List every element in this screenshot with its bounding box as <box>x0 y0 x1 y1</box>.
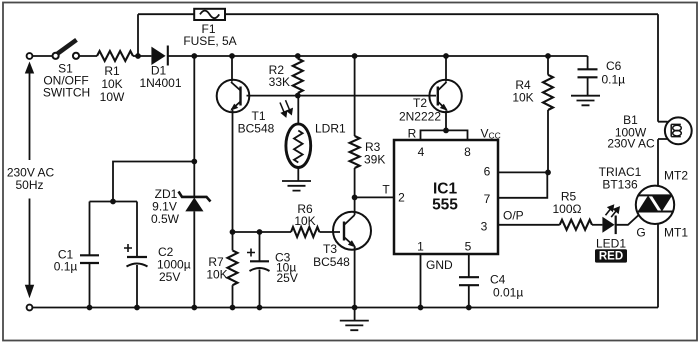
svg-text:0.1µ: 0.1µ <box>54 260 78 274</box>
resistor R3 <box>350 56 386 197</box>
wire terminal to S1 <box>33 55 53 57</box>
wire main rail D1 cathode to C6 drop <box>168 55 588 57</box>
wire C1-C2 top link <box>90 201 138 203</box>
wire pin 7 up to pin 6 junction <box>498 172 547 197</box>
label RED badge <box>595 249 627 263</box>
resistor R6 <box>291 202 319 237</box>
svg-text:R: R <box>408 127 417 141</box>
node L: AC live input terminal <box>27 53 33 59</box>
svg-text:10W: 10W <box>100 90 125 104</box>
node: junction on ZD1 line <box>191 159 197 165</box>
svg-text:GND: GND <box>426 258 453 272</box>
svg-text:100Ω: 100Ω <box>553 202 582 216</box>
light arrows into LDR <box>280 100 292 116</box>
wire T1 emitter down to R7 top <box>232 110 234 232</box>
svg-text:LED1: LED1 <box>596 236 626 250</box>
wire LED to triac gate <box>616 212 643 225</box>
resistor R7 <box>206 232 237 308</box>
svg-text:4: 4 <box>418 145 425 159</box>
LED emission arrows <box>606 206 620 218</box>
svg-text:1: 1 <box>417 240 424 254</box>
wire T2 collector to rail <box>445 56 447 82</box>
wire T3 emitter down to rail <box>354 247 356 308</box>
resistor R1 <box>97 51 133 104</box>
svg-text:25V: 25V <box>159 270 180 284</box>
svg-text:25V: 25V <box>277 271 298 285</box>
wire bottom rail <box>33 307 658 309</box>
switch S1 <box>43 40 90 100</box>
LDR1 <box>286 96 346 181</box>
svg-text:BC548: BC548 <box>313 255 350 269</box>
capacitor C1 <box>54 202 99 308</box>
node: C3 top junction <box>257 229 263 235</box>
node: R2 bottom / base junction <box>295 93 301 99</box>
svg-text:10K: 10K <box>512 91 533 105</box>
capacitor C2 (electrolytic) <box>124 202 191 308</box>
transistor T3 BC548 <box>313 212 371 269</box>
wire T2 emitter to pin4/8 bracket <box>445 111 447 131</box>
svg-text:RED: RED <box>599 251 623 263</box>
svg-text:C6: C6 <box>606 59 622 73</box>
wire T1 collector to rail <box>231 56 233 82</box>
wire base line to T2 <box>298 95 436 97</box>
svg-text:T3: T3 <box>323 242 337 256</box>
wire junction line to R6 <box>233 231 292 233</box>
svg-text:555: 555 <box>432 197 458 214</box>
wire right side drop to bulb <box>657 14 659 122</box>
zener diode ZD1 <box>151 56 211 308</box>
svg-text:2: 2 <box>398 191 405 205</box>
svg-text:T2: T2 <box>413 96 427 110</box>
capacitor C6 <box>578 56 626 96</box>
svg-text:1N4001: 1N4001 <box>139 76 181 90</box>
node: R4 top junction <box>545 53 551 59</box>
wire riser from C1/C2 link to ZD1 line <box>113 162 194 202</box>
svg-text:33K: 33K <box>269 75 290 89</box>
svg-text:0.5W: 0.5W <box>151 212 180 226</box>
wire MT2 riser <box>657 139 659 186</box>
node: ZD1 branch junction <box>191 53 197 59</box>
node T: trigger junction <box>352 195 358 201</box>
wire top rail left of fuse <box>138 13 194 15</box>
node: pin6/7/R4 junction <box>545 170 551 176</box>
transistor T1 BC548 <box>217 80 275 136</box>
svg-text:R1: R1 <box>104 64 120 78</box>
diode D1 1N4001 <box>139 46 181 91</box>
svg-text:0.1µ: 0.1µ <box>602 73 626 87</box>
svg-text:T: T <box>382 183 390 197</box>
svg-text:10K: 10K <box>101 77 122 91</box>
wire junction up to top rail <box>137 14 139 56</box>
resistor R4 <box>512 56 553 172</box>
svg-text:10K: 10K <box>294 214 315 228</box>
svg-text:G: G <box>636 226 645 240</box>
ground under LDR1 <box>282 181 311 191</box>
node: T2 collector junction <box>443 53 449 59</box>
fuse F1 <box>183 9 236 48</box>
node: bracket center junction <box>443 127 449 133</box>
node: C2 bottom rail junction <box>134 305 140 311</box>
capacitor C4 on pin 5 <box>459 254 523 308</box>
wire pin 1 to ground rail <box>420 254 422 308</box>
arrow to bottom terminal <box>29 199 31 286</box>
wire S1 to R1 <box>79 55 97 57</box>
svg-text:O/P: O/P <box>503 209 524 223</box>
wire T1 base to R2 junction <box>247 95 298 97</box>
resistor R2 <box>269 59 303 94</box>
svg-text:MT1: MT1 <box>664 226 688 240</box>
svg-text:3: 3 <box>481 220 488 234</box>
node N: AC neutral input terminal <box>27 305 33 311</box>
svg-text:0.01µ: 0.01µ <box>493 286 523 300</box>
ground under C6 <box>571 96 600 106</box>
svg-text:2N2222: 2N2222 <box>399 110 441 124</box>
op-amp/timer IC1 555 <box>394 140 498 254</box>
wire pin 6 to R4 bottom <box>498 171 548 173</box>
svg-text:50Hz: 50Hz <box>15 178 43 192</box>
svg-text:230V AC: 230V AC <box>607 137 655 151</box>
svg-text:C4: C4 <box>490 273 506 287</box>
node: T1 collector junction <box>229 53 235 59</box>
wire T3 collector up to trigger junction <box>354 197 356 215</box>
node: fuse tap junction <box>135 53 141 59</box>
capacitor C3 (electrolytic) <box>247 232 298 308</box>
transistor T2 2N2222 <box>399 80 462 124</box>
svg-text:8: 8 <box>464 145 471 159</box>
lamp B1 <box>607 113 691 151</box>
svg-text:SWITCH: SWITCH <box>43 86 90 100</box>
svg-text:7: 7 <box>484 192 491 206</box>
triac TRIAC1 BT136 <box>599 165 689 240</box>
svg-text:IC1: IC1 <box>433 181 458 198</box>
node: C1 bottom rail junction <box>87 305 93 311</box>
node: R3 top junction <box>352 53 358 59</box>
svg-text:5: 5 <box>465 240 472 254</box>
wire R1 to D1 with tap up to fuse <box>133 55 151 57</box>
ground below rail at T3 emitter <box>354 308 356 321</box>
wire trigger junction to IC pin 2 <box>355 196 394 198</box>
svg-text:BT136: BT136 <box>602 178 638 192</box>
wire right side bottom riser (MT1 to rail) <box>657 224 659 308</box>
node: R2 top junction <box>295 53 301 59</box>
node: R7 top junction <box>230 229 236 235</box>
wire pin 3 to R5 <box>498 224 560 226</box>
arrow to top terminal <box>29 72 31 160</box>
svg-text:FUSE, 5A: FUSE, 5A <box>183 34 236 48</box>
svg-text:6: 6 <box>484 165 491 179</box>
svg-text:MT2: MT2 <box>664 169 688 183</box>
node: ZD1 bottom rail junction <box>191 305 197 311</box>
pin 4/8 reset-vcc bracket <box>421 130 468 140</box>
resistor R5 <box>553 190 593 230</box>
svg-text:10K: 10K <box>206 268 227 282</box>
svg-text:39K: 39K <box>364 153 385 167</box>
node: C1/C2 link junction <box>110 199 116 205</box>
wire top rail fuse to right side <box>225 13 658 15</box>
svg-text:BC548: BC548 <box>238 122 275 136</box>
svg-text:LDR1: LDR1 <box>315 122 346 136</box>
LED1 <box>596 216 626 251</box>
